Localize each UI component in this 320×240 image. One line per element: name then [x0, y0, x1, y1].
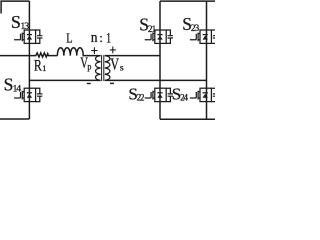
svg-text:14: 14: [13, 84, 22, 95]
svg-text:R: R: [34, 57, 42, 74]
svg-text:s: s: [120, 62, 124, 72]
svg-text:n: n: [91, 30, 98, 46]
svg-text:23: 23: [191, 24, 200, 34]
svg-text:24: 24: [180, 93, 188, 103]
svg-text:22: 22: [137, 93, 144, 103]
svg-text:1: 1: [106, 31, 111, 47]
svg-text:L: L: [66, 32, 72, 47]
svg-text::: :: [99, 30, 103, 45]
svg-text:p: p: [87, 63, 91, 73]
svg-text:1: 1: [42, 63, 46, 73]
svg-text:13: 13: [20, 21, 29, 32]
svg-text:V: V: [110, 55, 119, 74]
